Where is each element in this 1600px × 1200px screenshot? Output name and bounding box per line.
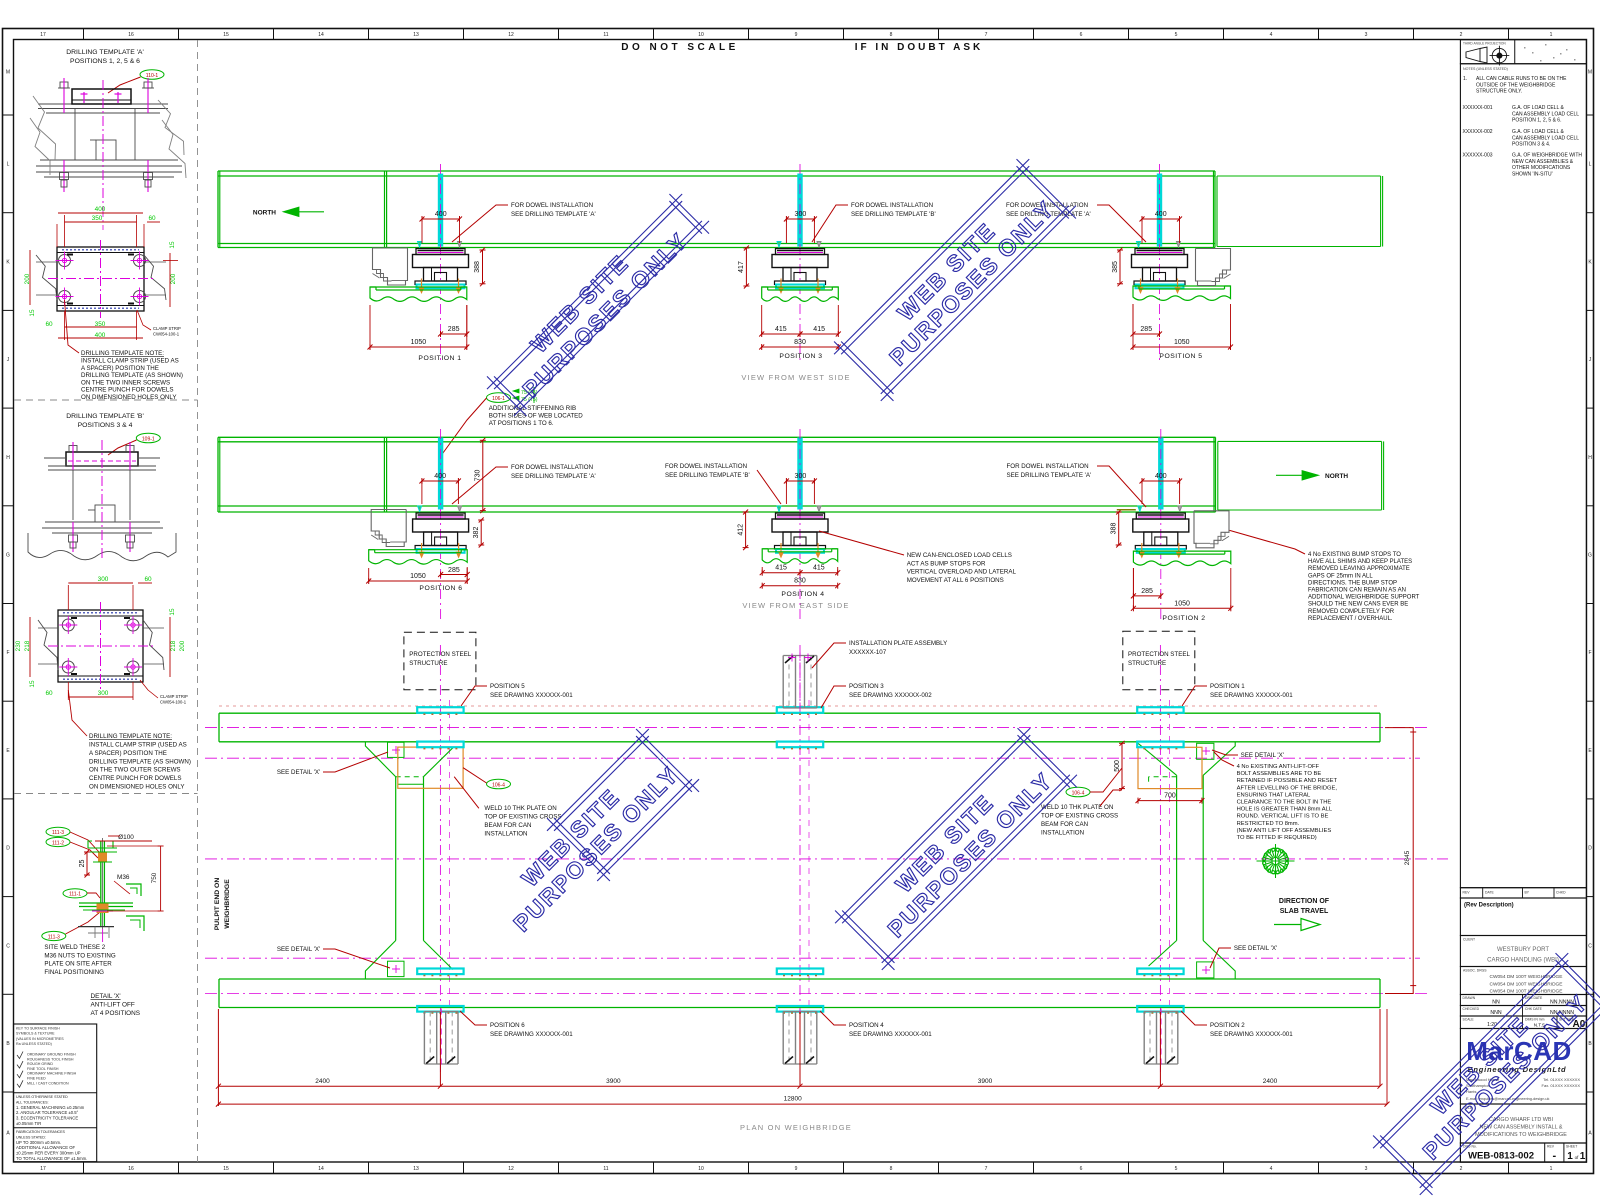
stiffening rib callout bubble 106-1: [487, 393, 511, 403]
svg-text:1: 1: [1550, 1166, 1553, 1172]
dimension 415: [762, 333, 800, 335]
row2 position centerline at x=1160.8: [1160, 429, 1162, 622]
svg-text:111-3: 111-3: [52, 830, 64, 836]
svg-text:HOLE IS GREATER THAN 8mm: HOLE IS GREATER THAN 8mm ALL: [1237, 807, 1333, 813]
svg-text:FABRICATION TOLERANCES: FABRICATION TOLERANCES: [16, 1130, 66, 1134]
svg-text:NORTH: NORTH: [1325, 473, 1348, 480]
svg-text:300: 300: [98, 690, 109, 697]
row1 existing beam ghost: [1217, 175, 1381, 177]
svg-text:400: 400: [1155, 211, 1167, 218]
svg-text:FOR DOWEL INSTALLATION: FOR DOWEL INSTALLATION: [851, 202, 933, 209]
svg-text:SEE DRAWING XXXXXX-001: SEE DRAWING XXXXXX-001: [849, 1031, 932, 1038]
svg-text:200: 200: [170, 273, 177, 284]
svg-text:15: 15: [29, 309, 36, 317]
svg-text:DO NOT SCALE: DO NOT SCALE: [621, 42, 739, 53]
svg-text:4 No EXISTING BUMP STOPS: 4 No EXISTING BUMP STOPS TO: [1308, 552, 1401, 558]
plan position centerline vertical at x=800: [799, 645, 801, 1072]
svg-text:RETAINED IF POSSIBLE AND R: RETAINED IF POSSIBLE AND RESET: [1237, 778, 1338, 784]
svg-text:5: 5: [1175, 1166, 1178, 1172]
svg-text:DRILLING TEMPLATE 'A': DRILLING TEMPLATE 'A': [66, 49, 144, 56]
MarCAD logo box: [1460, 1029, 1586, 1105]
plan cyan plate above bottom rail x=1160.4: [1137, 969, 1183, 975]
plan right orange weld plate: [1138, 747, 1202, 788]
surface finish and tolerance notes box: [14, 1024, 97, 1162]
dimension 417: [745, 248, 747, 286]
svg-text:CENTRE PUNCH FOR DOWELS: CENTRE PUNCH FOR DOWELS: [89, 775, 181, 782]
plan magenta centerline bottom rail: [205, 993, 1428, 995]
svg-text:POSITION 6: POSITION 6: [419, 585, 462, 592]
svg-text:POSITION 5: POSITION 5: [490, 683, 525, 690]
svg-text:BY: BY: [1525, 891, 1530, 895]
svg-text:13: 13: [413, 32, 419, 38]
plan left cross beam: [395, 777, 397, 941]
watermark WEB SITE PURPOSES ONLY: [481, 188, 716, 423]
svg-text:NEW CAN-ENCLOSED LOAD CELLS: NEW CAN-ENCLOSED LOAD CELLS: [907, 552, 1012, 559]
row2 position centerline at x=800: [799, 429, 801, 622]
title box: [1460, 1104, 1586, 1143]
svg-text:Ra UNLESS STATED): Ra UNLESS STATED): [16, 1042, 52, 1046]
svg-text:PLATE ON SITE AFTER: PLATE ON SITE AFTER: [44, 961, 112, 968]
svg-text:FOR DOWEL INSTALLATION: FOR DOWEL INSTALLATION: [1007, 463, 1089, 470]
svg-text:CHK DATE: CHK DATE: [1525, 1007, 1543, 1011]
svg-text:INSTALL CLAMP STRIP (USED: INSTALL CLAMP STRIP (USED AS: [81, 358, 179, 365]
svg-text:285: 285: [448, 567, 460, 574]
dimension 400: [1142, 480, 1180, 482]
svg-text:106-4: 106-4: [492, 783, 505, 789]
plan direction arrow: [1274, 924, 1301, 926]
svg-text:6: 6: [1080, 1166, 1083, 1172]
svg-text:285: 285: [448, 326, 460, 333]
plan bottom dimension row 2400-3900-3900-2400: [217, 1009, 219, 1106]
protection steel structure (existing): [1194, 511, 1229, 548]
svg-text:FINAL POSITIONING: FINAL POSITIONING: [44, 969, 104, 976]
svg-text:ROUND. VERTICAL LIFT IS: ROUND. VERTICAL LIFT IS TO BE: [1237, 814, 1329, 820]
svg-text:830: 830: [794, 578, 806, 585]
svg-text:SEE DRAWING XXXXXX-001: SEE DRAWING XXXXXX-001: [1210, 692, 1293, 699]
svg-text:SEE DRAWING XXXXXX-001: SEE DRAWING XXXXXX-001: [490, 1031, 573, 1038]
anchor bolt cage at x=800: [782, 1012, 784, 1065]
svg-text:POSITION 2: POSITION 2: [1162, 615, 1205, 622]
svg-text:415: 415: [775, 326, 787, 333]
svg-text:60: 60: [45, 321, 53, 328]
row1 main beam (green): [218, 170, 1215, 172]
svg-text:KEY TO SURFACE FINISH: KEY TO SURFACE FINISH: [16, 1027, 60, 1031]
svg-text:15: 15: [169, 608, 176, 616]
svg-text:TOP OF EXISTING CROSS: TOP OF EXISTING CROSS: [1041, 813, 1118, 820]
svg-text:9: 9: [795, 1166, 798, 1172]
drawn row: [1460, 995, 1586, 1006]
svg-text:200: 200: [179, 640, 186, 651]
svg-text:16: 16: [128, 32, 134, 38]
svg-text:CW054 DM 100T WEIGHBRIDGE: CW054 DM 100T WEIGHBRIDGE: [1490, 989, 1563, 995]
svg-text:109-1: 109-1: [142, 437, 155, 443]
svg-text:TO BE FITTED IF REQUIRED): TO BE FITTED IF REQUIRED): [1237, 835, 1317, 841]
svg-text:DRILLING TEMPLATE NOTE:: DRILLING TEMPLATE NOTE:: [89, 733, 172, 740]
svg-text:REMOVED COMPLETELY FOR: REMOVED COMPLETELY FOR: [1308, 609, 1395, 615]
svg-text:1050: 1050: [1174, 600, 1190, 607]
svg-text:HAVE ALL SHIMS AND KEEP P: HAVE ALL SHIMS AND KEEP PLATES: [1308, 559, 1412, 565]
plan right cross beam: [1176, 775, 1178, 940]
svg-text:PROTECTION STEEL: PROTECTION STEEL: [1128, 651, 1190, 658]
row1 stiffening rib (cyan) at x=440.5: [438, 174, 442, 246]
svg-text:G.A. OF LOAD CELL &: G.A. OF LOAD CELL &: [1512, 105, 1564, 111]
top cage magenta crosses: [788, 657, 796, 659]
svg-text:700: 700: [1164, 793, 1176, 800]
svg-text:M: M: [1588, 70, 1592, 76]
template B plan dimensions (green): [67, 585, 69, 610]
plan cyan plate above bottom rail x=440.4: [417, 969, 463, 975]
svg-text:MILL / CAST CONDITION: MILL / CAST CONDITION: [27, 1081, 69, 1085]
svg-text:UP TO 300mm ±0.5mm.: UP TO 300mm ±0.5mm.: [16, 1140, 61, 1145]
svg-text:17: 17: [40, 1166, 46, 1172]
svg-text:CLIENT: CLIENT: [1463, 938, 1475, 942]
svg-text:ADDITIONAL STIFFENING RIB: ADDITIONAL STIFFENING RIB: [489, 405, 576, 412]
svg-text:SEE DRAWING XXXXXX-001: SEE DRAWING XXXXXX-001: [1210, 1031, 1293, 1038]
plan left detail-X bolt square top: [388, 742, 405, 757]
svg-text:ACT AS BUMP STOPS FOR: ACT AS BUMP STOPS FOR: [907, 560, 986, 567]
svg-text:400: 400: [434, 473, 446, 480]
svg-text:400: 400: [95, 206, 106, 213]
svg-text:11: 11: [603, 1166, 608, 1172]
dimension 285: [441, 333, 467, 335]
svg-text:2845: 2845: [1404, 850, 1411, 865]
svg-text:AFTER LEVELLING OF THE BRI: AFTER LEVELLING OF THE BRIDGE,: [1237, 785, 1338, 791]
svg-text:SHEET: SHEET: [1566, 1145, 1577, 1149]
svg-text:XXXXXX-001: XXXXXX-001: [1463, 105, 1493, 111]
svg-text:M: M: [6, 70, 10, 76]
svg-text:VERTICAL OVERLOAD AND LATER: VERTICAL OVERLOAD AND LATERAL: [907, 569, 1017, 576]
svg-text:10: 10: [698, 32, 704, 38]
svg-text:6: 6: [1080, 32, 1083, 38]
svg-text:SEE DRILLING TEMPLATE 'A': SEE DRILLING TEMPLATE 'A': [511, 473, 596, 480]
svg-text:750: 750: [151, 872, 158, 883]
svg-text:60: 60: [45, 690, 53, 697]
plan weld plate callout right: bubble 106-4: [1066, 787, 1090, 797]
row2 beam right joint: [1213, 437, 1215, 512]
row1 beam right joint: [1213, 171, 1215, 248]
plan dim 2845 right side: [1412, 732, 1414, 986]
svg-text:STRUCTURE: STRUCTURE: [1128, 660, 1166, 667]
svg-text:POSITION 3: POSITION 3: [849, 683, 884, 690]
svg-text:14: 14: [318, 1166, 324, 1172]
plan magenta gauge line below top rail: [205, 757, 1420, 759]
svg-text:1: 1: [1580, 1151, 1586, 1162]
notes box finish symbol rows: [17, 1052, 23, 1059]
plan position centerline vertical at x=440.4: [439, 645, 441, 1072]
svg-text:FABRICATION CAN REMAIN AS: FABRICATION CAN REMAIN AS AN: [1308, 588, 1406, 594]
svg-text:WEB-0813-002: WEB-0813-002: [1468, 1151, 1534, 1162]
svg-text:NN: NN: [1492, 1000, 1500, 1006]
svg-text:60: 60: [144, 576, 152, 583]
plan right detail-X bolt square bottom: [1197, 962, 1214, 978]
svg-text:FOR DOWEL INSTALLATION: FOR DOWEL INSTALLATION: [665, 463, 747, 470]
svg-text:14: 14: [318, 32, 324, 38]
template A elevation drawing: [30, 78, 186, 230]
dimension 285: [441, 574, 468, 576]
svg-text:415: 415: [813, 565, 825, 572]
svg-text:ROUGH GRIND: ROUGH GRIND: [27, 1062, 53, 1066]
svg-text:WEIGHBRIDGE: WEIGHBRIDGE: [224, 879, 231, 929]
svg-text:1: 1: [1567, 1151, 1573, 1162]
svg-text:12: 12: [508, 1166, 514, 1172]
svg-text:CAN ASSEMBLY LOAD CELL: CAN ASSEMBLY LOAD CELL: [1512, 111, 1579, 117]
plan overall dimension 12800: [218, 1103, 1387, 1105]
row2 stiffening rib (cyan) at x=800: [798, 438, 802, 509]
svg-text:SEE DRILLING TEMPLATE 'B': SEE DRILLING TEMPLATE 'B': [665, 472, 750, 479]
row1 stiffening rib (cyan) at x=1159.5: [1157, 174, 1161, 246]
svg-text:CW054-100-1: CW054-100-1: [160, 700, 187, 705]
row2 existing beam ghost: [1218, 440, 1382, 442]
watermark WEB SITE PURPOSES ONLY: [829, 722, 1084, 977]
svg-text:ON THE TWO INNER SCREWS: ON THE TWO INNER SCREWS: [81, 379, 170, 386]
watermark WEB SITE PURPOSES ONLY: [1367, 947, 1600, 1200]
svg-text:218: 218: [170, 640, 177, 651]
svg-text:1050: 1050: [1174, 339, 1190, 346]
foundation block at 370-466.8: [370, 287, 467, 301]
svg-text:NORTH: NORTH: [253, 210, 276, 217]
svg-text:25: 25: [79, 860, 86, 868]
svg-text:3. ECCENTRICITY TOLERANCE: 3. ECCENTRICITY TOLERANCE: [16, 1116, 78, 1121]
svg-text:PULPIT END ON: PULPIT END ON: [214, 878, 221, 931]
svg-text:1.: 1.: [1463, 76, 1467, 82]
svg-text:3900: 3900: [978, 1078, 993, 1085]
svg-text:830: 830: [794, 339, 806, 346]
svg-text:DRILLING TEMPLATE (AS SHOWN: DRILLING TEMPLATE (AS SHOWN): [89, 758, 191, 765]
svg-text:CHKD: CHKD: [1556, 891, 1566, 895]
svg-text:INSTALLATION: INSTALLATION: [1041, 830, 1084, 837]
dimension 1050: [1133, 346, 1231, 348]
svg-text:SHOWN 'IN-SITU': SHOWN 'IN-SITU': [1512, 171, 1553, 177]
svg-text:CW054-100-1: CW054-100-1: [153, 332, 180, 337]
svg-text:POSITION 4: POSITION 4: [849, 1022, 884, 1029]
dimension 388: [482, 250, 484, 284]
row1 position centerline at x=1159.5: [1159, 164, 1161, 360]
foundation block at 1133.4-1230.8: [1133, 551, 1230, 565]
svg-text:ASSOC. DRGS: ASSOC. DRGS: [1463, 969, 1487, 973]
svg-text:385: 385: [1112, 261, 1119, 273]
plan protection steel structure box right: [1123, 631, 1195, 690]
svg-text:PROTECTION STEEL: PROTECTION STEEL: [409, 651, 471, 658]
svg-text:SEE DRILLING TEMPLATE 'B': SEE DRILLING TEMPLATE 'B': [851, 211, 936, 218]
projection target symbol: [1492, 48, 1506, 62]
svg-text:THIRD ANGLE PROJECTION: THIRD ANGLE PROJECTION: [1463, 42, 1506, 46]
svg-text:H: H: [1588, 455, 1592, 461]
svg-text:12: 12: [508, 32, 514, 38]
row2 bump stop olive mark: [1117, 509, 1136, 511]
checked row: [1460, 1006, 1586, 1017]
svg-text:A SPACER) POSITION THE: A SPACER) POSITION THE: [81, 365, 159, 372]
watermark WEB SITE PURPOSES ONLY: [828, 153, 1083, 408]
dimension 400: [1142, 218, 1180, 220]
grid reference ticks top/bottom: [83, 29, 85, 40]
svg-text:FOR DOWEL INSTALLATION: FOR DOWEL INSTALLATION: [511, 202, 593, 209]
svg-text:POSITION 1: POSITION 1: [1210, 683, 1245, 690]
plan top rail (green): [219, 712, 1380, 714]
svg-text:350: 350: [92, 215, 103, 222]
dimension 385: [1119, 250, 1121, 284]
svg-text:POSITIONS 3 & 4: POSITIONS 3 & 4: [78, 422, 133, 429]
svg-text:AT 4 POSITIONS: AT 4 POSITIONS: [91, 1010, 140, 1017]
svg-text:285: 285: [1140, 326, 1152, 333]
svg-text:3900: 3900: [606, 1078, 621, 1085]
svg-text:2. ANGULAR TOLERANCE ±0.5: 2. ANGULAR TOLERANCE ±0.5°: [16, 1110, 79, 1115]
svg-text:111-1: 111-1: [69, 892, 81, 898]
svg-text:3: 3: [1365, 1166, 1368, 1172]
svg-text:15: 15: [223, 32, 229, 38]
svg-text:SEE DETAIL 'X': SEE DETAIL 'X': [1241, 752, 1284, 759]
svg-text:DRILLING TEMPLATE (AS SHOWN: DRILLING TEMPLATE (AS SHOWN): [81, 372, 183, 379]
svg-text:OUTSIDE OF THE WEIGHBRIDGE: OUTSIDE OF THE WEIGHBRIDGE: [1476, 82, 1556, 88]
title block projection symbol box: [1460, 40, 1586, 64]
row1 position centerline at x=800: [799, 164, 801, 360]
svg-text:9: 9: [795, 32, 798, 38]
svg-text:417: 417: [738, 261, 745, 273]
svg-text:MODIFICATIONS TO WEIGHBRIDGE: MODIFICATIONS TO WEIGHBRIDGE: [1475, 1132, 1567, 1138]
svg-text:F: F: [6, 650, 9, 656]
svg-text:±0.25mm PER EVERY 300mm UP: ±0.25mm PER EVERY 300mm UP: [16, 1151, 81, 1156]
dimension 25: [86, 852, 88, 875]
svg-text:REMOVED LEAVING APPROXIMATE: REMOVED LEAVING APPROXIMATE: [1308, 566, 1410, 572]
svg-text:DIRECTIONS. THE BUMP STOP: DIRECTIONS. THE BUMP STOP: [1308, 580, 1397, 586]
svg-text:SEE DRILLING TEMPLATE 'A': SEE DRILLING TEMPLATE 'A': [511, 211, 596, 218]
svg-text:17: 17: [40, 32, 46, 38]
svg-text:MOVEMENT AT ALL 6 POSITION: MOVEMENT AT ALL 6 POSITIONS: [907, 577, 1004, 584]
plan left orange weld plate: [398, 747, 463, 788]
svg-text:XXXXXX-002: XXXXXX-002: [1463, 129, 1493, 135]
scale row: [1460, 1016, 1586, 1029]
anchor bolt cage at x=441.2: [423, 1012, 425, 1065]
svg-text:CAN ASSEMBLY LOAD CELL: CAN ASSEMBLY LOAD CELL: [1512, 135, 1579, 141]
svg-text:1050: 1050: [410, 573, 426, 580]
svg-text:G.A. OF WEIGHBRIDGE WITH: G.A. OF WEIGHBRIDGE WITH: [1512, 153, 1582, 159]
plan secondary gauge vertical at x=809: [808, 700, 810, 1012]
plan magenta mid centerline: [205, 858, 1448, 860]
svg-text:IF IN DOUBT ASK: IF IN DOUBT ASK: [855, 42, 984, 53]
dimension 415: [800, 333, 838, 335]
svg-text:CARGO WHARF LTD WBI: CARGO WHARF LTD WBI: [1489, 1117, 1553, 1123]
svg-text:UNLESS STATED:: UNLESS STATED:: [16, 1135, 46, 1139]
svg-text:4 No EXISTING ANTI-LIFT-OFF: 4 No EXISTING ANTI-LIFT-OFF: [1237, 764, 1320, 770]
row2 stiffening rib (cyan) at x=440.6: [438, 438, 442, 509]
svg-text:230: 230: [15, 640, 22, 651]
svg-text:POSITION 5: POSITION 5: [1159, 353, 1202, 360]
dimension 1050: [369, 580, 468, 582]
svg-text:412: 412: [738, 524, 745, 536]
svg-text:M36 NUTS TO EXISTING: M36 NUTS TO EXISTING: [44, 952, 115, 959]
svg-text:SYMBOLS & TEXTURE: SYMBOLS & TEXTURE: [16, 1032, 55, 1036]
svg-text:REV: REV: [1463, 891, 1471, 895]
svg-text:Tel. 01XXX XXXXXX: Tel. 01XXX XXXXXX: [1543, 1077, 1580, 1082]
plan cyan plate above top rail x=440.4: [417, 707, 463, 713]
load cell assembly at x=800: [772, 242, 828, 294]
svg-text:OTHER MODIFICATIONS: OTHER MODIFICATIONS: [1512, 165, 1571, 171]
svg-text:SEE DRAWING XXXXXX-001: SEE DRAWING XXXXXX-001: [490, 692, 573, 699]
plan magenta centerline top rail: [205, 727, 1428, 729]
svg-text:C: C: [6, 943, 10, 949]
drawing number row: [1460, 1143, 1586, 1162]
svg-text:NOTES (UNLESS STATED): NOTES (UNLESS STATED): [1463, 67, 1508, 71]
svg-text:7: 7: [985, 1166, 988, 1172]
svg-text:ON DIMENSIONED HOLES ONLY: ON DIMENSIONED HOLES ONLY: [81, 394, 176, 401]
dimension 412: [745, 512, 747, 548]
svg-text:INSTALLATION: INSTALLATION: [484, 831, 527, 838]
template B elevation drawing: [28, 440, 176, 561]
svg-text:REV: REV: [1547, 1145, 1555, 1149]
svg-text:111-2: 111-2: [52, 840, 64, 846]
dimension 500: [1121, 743, 1123, 788]
svg-text:PLAN ON WEIGHBRIDGE: PLAN ON WEIGHBRIDGE: [740, 1123, 852, 1132]
svg-text:8: 8: [890, 1166, 893, 1172]
svg-text:GAPS OF 25mm IN ALL: GAPS OF 25mm IN ALL: [1308, 573, 1373, 579]
title block faint marks right cell: [1524, 47, 1526, 49]
svg-text:WELD 10 THK PLATE ON: WELD 10 THK PLATE ON: [484, 805, 556, 812]
svg-text:400: 400: [435, 211, 447, 218]
plan protection steel structure box left: [404, 632, 476, 690]
associated drawings box: [1460, 967, 1586, 995]
svg-text:10: 10: [698, 1166, 704, 1172]
svg-text:382: 382: [473, 527, 480, 539]
svg-text:C: C: [1588, 943, 1592, 949]
svg-text:ON THE TWO OUTER SCREWS: ON THE TWO OUTER SCREWS: [89, 767, 181, 774]
svg-text:DIRECTION OF: DIRECTION OF: [1279, 898, 1330, 905]
svg-text:ADDITIONAL ALLOWANCE OF: ADDITIONAL ALLOWANCE OF: [16, 1145, 75, 1150]
svg-text:TOP OF EXISTING CROSS: TOP OF EXISTING CROSS: [484, 814, 561, 821]
svg-text:4: 4: [1270, 32, 1273, 38]
plan left detail-X bolt square bottom: [388, 961, 405, 976]
dimension 415: [762, 572, 800, 574]
projection cone symbol: [1466, 49, 1480, 62]
client box: [1460, 936, 1586, 967]
dimension 415: [800, 572, 838, 574]
dimension 830: [762, 346, 839, 348]
svg-text:SITE WELD THESE 2: SITE WELD THESE 2: [44, 944, 105, 951]
svg-text:CARGO HANDLING (WBI): CARGO HANDLING (WBI): [1487, 958, 1559, 964]
svg-text:SEE DRAWING XXXXXX-002: SEE DRAWING XXXXXX-002: [849, 692, 932, 699]
dimension 1050: [370, 346, 467, 348]
plan cyan plate above top rail x=1160.4: [1137, 707, 1183, 713]
svg-text:DRILLING TEMPLATE 'B': DRILLING TEMPLATE 'B': [66, 413, 144, 420]
left column section divider 2: [14, 793, 198, 795]
row1 position centerline at x=440.5: [440, 164, 442, 360]
svg-text:415: 415: [813, 326, 825, 333]
plan cyan plate below top rail x=440.4: [417, 742, 463, 748]
svg-text:ORDINARY GROUND FINISH: ORDINARY GROUND FINISH: [27, 1053, 76, 1057]
load cell assembly at x=1159.5: [1132, 242, 1188, 294]
svg-text:D: D: [1588, 846, 1592, 852]
svg-text:CLAMP STRIP: CLAMP STRIP: [160, 694, 188, 699]
revision strip: [1460, 888, 1586, 898]
svg-text:SHOULD THE NEW CANS EVER: SHOULD THE NEW CANS EVER BE: [1308, 602, 1408, 608]
svg-text:F: F: [1588, 650, 1591, 656]
svg-text:FINE FEED: FINE FEED: [27, 1077, 46, 1081]
svg-text:500: 500: [1114, 760, 1121, 772]
svg-text:ENSURING THAT LATERAL: ENSURING THAT LATERAL: [1237, 792, 1311, 798]
svg-text:POSITION 3 & 4.: POSITION 3 & 4.: [1512, 142, 1550, 148]
row2 main beam (green): [218, 436, 1216, 438]
svg-text:16: 16: [128, 1166, 134, 1172]
svg-text:DRILLING TEMPLATE NOTE:: DRILLING TEMPLATE NOTE:: [81, 350, 164, 357]
load cell assembly at x=440.6: [413, 506, 469, 558]
svg-text:POSITION 6: POSITION 6: [490, 1022, 525, 1029]
plan cyan plate below bottom rail x=800: [777, 1006, 823, 1012]
svg-text:13: 13: [413, 1166, 419, 1172]
dimension 730: [482, 440, 484, 510]
plan cyan plate below bottom rail x=440.4: [417, 1006, 463, 1012]
right column tall box: [1460, 64, 1586, 888]
row1 stiffening rib (cyan) at x=800: [798, 174, 802, 246]
dimension 300: [786, 480, 814, 482]
stiffening rib green dims 75: [513, 389, 519, 393]
